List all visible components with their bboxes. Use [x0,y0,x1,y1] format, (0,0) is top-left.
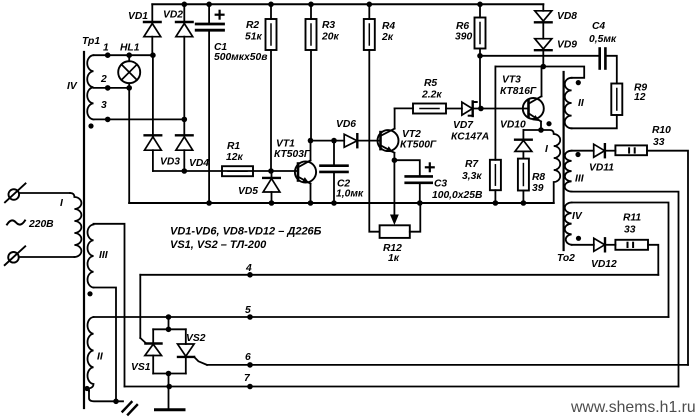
zener diode VD7 [451,102,489,143]
svg-text:3: 3 [101,100,107,111]
svg-text:III: III [99,250,109,261]
To2 winding IV [565,203,583,245]
wire: top positive rail [152,3,543,5]
diode VD4 [176,135,209,171]
svg-text:Тр1: Тр1 [82,36,100,47]
svg-text:39: 39 [532,183,544,194]
To2 winding I [541,130,560,203]
resistor R6 [455,4,486,108]
svg-text:VT1: VT1 [276,139,295,150]
svg-text:100,0х25В: 100,0х25В [432,190,483,201]
To2 winding IV phase dot [576,236,581,241]
svg-text:VS1, VS2 – ТЛ-200: VS1, VS2 – ТЛ-200 [170,239,267,251]
diode VD2 [163,4,193,135]
wire: Tp1 winding II bottom to chassis stub [89,391,123,401]
wire: To2 winding III bottom to wire 7 [572,192,679,387]
diode VD11 [589,144,615,173]
resistor R5 [413,78,446,114]
thyristor VS1 [131,329,162,373]
wire: R10 to wire 6 [647,151,688,365]
svg-text:VD7: VD7 [453,120,474,131]
wire: VT2 emitter down to R12 wiper [393,160,395,215]
diode VD12 [591,238,617,270]
mains plug upper [5,184,70,203]
svg-text:390: 390 [455,32,472,43]
wire 4 [140,263,658,275]
wire: R11 to wire 4 [648,245,658,275]
svg-text:6: 6 [245,352,251,363]
resistor R2 [245,4,277,171]
wire: R6 to C4 [480,55,600,57]
resistor R3 [306,4,340,140]
wire: To2 winding IV top to wire 5 [572,203,669,318]
junction dots: output wires [113,272,253,404]
junction dots: middle nodes [392,53,546,163]
svg-text:VD11: VD11 [589,163,614,174]
svg-text:51к: 51к [245,32,262,43]
svg-text:R4: R4 [382,21,395,32]
svg-text:КТ500Г: КТ500Г [400,140,437,151]
wire: VT3 emitter node [523,129,541,131]
svg-text:7: 7 [244,373,251,384]
junction dots: taps [105,52,187,122]
diode VD6 [336,119,381,147]
Tp1 winding III phase dot [87,291,92,296]
svg-text:VD6: VD6 [336,119,356,130]
wire: Tp1 winding III bottom down to common node [94,288,117,402]
thyristor bridge: top node riser [168,317,170,329]
svg-text:II: II [97,352,104,363]
svg-text:VD9: VD9 [557,40,577,51]
svg-text:R5: R5 [424,78,437,89]
Tp1 winding IV [67,55,94,119]
wire: R4 lead down to R12 left end [369,50,379,232]
svg-text:2.2к: 2.2к [421,90,442,101]
chassis mark (double slash) [123,402,138,415]
svg-text:КТ816Г: КТ816Г [500,86,537,97]
diode VD9 [535,39,578,67]
wire: R7 top lead [494,67,496,160]
svg-text:R10: R10 [652,125,671,136]
svg-text:3,3к: 3,3к [462,171,482,182]
svg-text:33: 33 [653,137,665,148]
svg-text:VD12: VD12 [591,259,617,270]
wire: zener node to winding II top of To2 [495,67,584,78]
wire: bottom common rail [129,202,554,204]
svg-text:VS2: VS2 [186,333,206,344]
svg-text:VD5: VD5 [238,186,258,197]
svg-text:C4: C4 [592,21,605,32]
wire: R5 to VD7 [446,108,462,110]
Tp1 primary winding I [60,193,81,257]
capacitor C3 [406,163,483,203]
Tp1 winding II [88,317,104,391]
svg-text:VD2: VD2 [163,10,183,21]
wire: C4 to R9 top [605,56,616,84]
svg-text:VS1: VS1 [131,362,151,373]
capacitor C2 [321,141,364,203]
diode VD5 [238,171,280,203]
resistor R4 [364,4,396,50]
capacitor C4 [589,21,617,69]
svg-text:1,0мк: 1,0мк [336,189,364,200]
To2 winding II phase dot [576,80,581,85]
diode VD8 [535,4,578,38]
thyristor bridge: bottom bar [153,373,186,375]
svg-text:220В: 220В [28,219,54,230]
junction dots: VT1 collector wire [308,138,337,144]
wire: tap 3 [94,118,185,120]
svg-text:R6: R6 [456,21,469,32]
svg-text:12: 12 [634,92,646,103]
wire: Tp1 winding III top to wire 7 [94,224,125,387]
resistor R11 [615,213,648,250]
resistor R10 [615,125,671,155]
svg-text:VD1: VD1 [128,11,148,22]
svg-text:КС147А: КС147А [451,132,489,143]
svg-text:12к: 12к [226,152,243,163]
svg-text:www.shems.h1.ru: www.shems.h1.ru [570,399,696,416]
wire 5 [94,305,669,317]
svg-text:I: I [60,198,64,209]
svg-text:0,5мк: 0,5мк [589,34,617,45]
thyristor bridge: top bar [153,328,186,330]
svg-text:То2: То2 [557,253,575,264]
svg-text:IV: IV [572,211,583,222]
junction dots: R1 wire [182,168,274,174]
svg-text:VD4: VD4 [189,158,209,169]
svg-text:R3: R3 [322,20,335,31]
diode VD3 [145,55,181,171]
svg-text:2к: 2к [381,32,394,43]
svg-text:2: 2 [100,74,107,85]
svg-text:R1: R1 [227,141,240,152]
transistor VT3 [500,67,544,131]
svg-text:R7: R7 [465,159,479,170]
wire: To2 winding III top to VD11 [572,150,594,152]
wire: VT1 collector node to VD6 [311,140,345,142]
thyristor VS2 [178,329,208,373]
wire 6 [207,352,688,365]
svg-text:VD3: VD3 [160,157,180,168]
svg-text:VD1-VD6, VD8-VD12 – Д226Б: VD1-VD6, VD8-VD12 – Д226Б [170,226,322,238]
To2 winding II [565,78,585,129]
note text [170,226,322,252]
junction dots: top rail [182,2,483,8]
wire 7 [125,373,679,387]
capacitor C1 [196,4,267,203]
resistor R7 [462,159,501,203]
svg-text:20к: 20к [321,32,339,43]
svg-text:HL1: HL1 [120,43,140,54]
svg-text:1к: 1к [388,253,400,264]
svg-text:III: III [575,174,585,185]
svg-text:VD10: VD10 [500,120,526,131]
Tp1 winding II phase dot [84,386,89,391]
svg-text:1: 1 [103,43,109,54]
To2 winding III phase dot [575,152,580,157]
wire: lamp/tap2 node down to bottom rail [128,88,130,203]
To2 winding I phase dot [546,121,551,126]
svg-text:33: 33 [624,225,636,236]
To2 winding III [565,151,585,192]
lamp HL1 [118,43,140,88]
transistor VT1 [274,139,316,204]
resistor R9 [611,83,647,116]
wire: R9 bottom to winding II of To2 [572,115,617,128]
wire: To2 winding IV bottom to VD12 [572,244,594,246]
svg-text:IV: IV [67,81,78,92]
svg-text:КТ503Г: КТ503Г [274,149,311,160]
Tp1 winding III [88,225,109,288]
Tp1 winding IV phase dot [88,123,93,128]
transistor VT2 [378,108,437,160]
svg-text:C3: C3 [434,179,447,190]
svg-text:R2: R2 [246,20,259,31]
diode VD10 [500,120,532,159]
svg-text:VD8: VD8 [557,11,577,22]
wire: tap 1 [94,54,153,56]
wire: tap 2 [94,87,130,89]
svg-text:R11: R11 [623,213,641,224]
svg-text:500мкх50в: 500мкх50в [214,52,267,63]
svg-text:I: I [545,144,549,155]
mains plug lower [5,246,75,265]
diode VD1 [128,4,161,55]
junction dots: bottom rail [206,200,526,206]
svg-text:VT2: VT2 [402,129,421,140]
svg-text:VT3: VT3 [502,75,521,86]
transformer Tp1 core [83,52,85,408]
svg-text:R8: R8 [532,172,545,183]
wire: VS1 gate riser [139,275,141,338]
wire: VT2 emitter node to C3 top [394,160,419,176]
resistor R1 [222,141,253,176]
svg-text:II: II [578,98,585,109]
ground bar [156,408,185,411]
rheostat R12 [380,203,421,264]
wire: VD3/VD4 to R1 and VT1 base [153,170,298,172]
wire: bridge bottom to ground [168,374,170,409]
wire: VD7 to VT3 base [473,108,529,110]
transformer To2 core [562,72,564,250]
resistor R8 [518,159,546,203]
label ~220V [7,219,54,230]
wire: VT2 collector to R5 [395,107,413,109]
